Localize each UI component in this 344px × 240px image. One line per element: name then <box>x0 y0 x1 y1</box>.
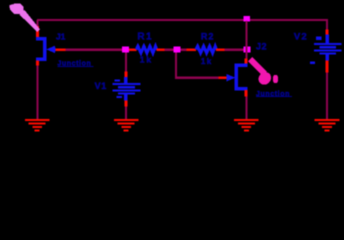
wire top rail right corner down to V2 <box>326 20 328 30</box>
battery V1 <box>112 77 140 100</box>
node C junction (drain rail) <box>243 47 250 53</box>
ground G3 <box>234 119 259 132</box>
battery V2 <box>310 35 342 64</box>
svg-text:V1: V1 <box>95 81 107 91</box>
wire node B to R2 <box>180 49 186 51</box>
pin R1 left <box>129 48 137 51</box>
pin V1 bottom stub <box>124 100 127 106</box>
svg-text:J1: J1 <box>56 32 66 42</box>
node B junction (J2 gate branch) <box>174 47 181 53</box>
pin R2 left <box>187 48 197 51</box>
pin R1 right <box>157 48 165 51</box>
pin J2 source stub <box>245 90 248 96</box>
pin J2 drain stub <box>245 58 248 64</box>
label J2 <box>256 41 267 51</box>
label R1 <box>137 32 153 43</box>
wire node B branch to J2 gate <box>175 77 219 79</box>
label Junction (J1 model) <box>57 61 93 68</box>
label R1 value 1k <box>140 55 153 65</box>
svg-text:J2: J2 <box>256 41 267 51</box>
label R2 value 1k <box>201 57 213 66</box>
cursor 1 (soldering-iron tool at J1 drain) <box>9 4 40 32</box>
label V2 <box>294 32 308 43</box>
node A junction (V1 branch) <box>122 47 129 53</box>
pin J2 gate stub <box>219 77 228 80</box>
ground G2 <box>114 119 139 132</box>
wire V2 to ground <box>326 73 328 119</box>
wire J2 source to ground <box>245 97 247 120</box>
label V1 <box>95 81 107 91</box>
label R2 <box>201 32 215 42</box>
cursor 2 (soldering-iron tool at J2 drain) <box>248 57 278 87</box>
svg-text:V2: V2 <box>294 32 308 43</box>
node D junction (top rail tap) <box>243 16 250 22</box>
label Junction (J2 model) <box>256 91 292 98</box>
wire node A down to V1 <box>125 52 127 71</box>
wire R2 to node C <box>224 49 244 51</box>
pin V2 top stub <box>325 30 328 35</box>
wire R1 to node B <box>165 49 175 51</box>
wire top rail to J2 drain <box>245 21 247 59</box>
wire top rail <box>37 19 328 21</box>
transistor J2 <box>227 64 248 91</box>
svg-text:R2: R2 <box>201 32 215 42</box>
wire J1 source to ground <box>37 65 39 119</box>
resistor R1 <box>136 46 157 53</box>
ground G1 <box>25 119 50 132</box>
svg-text:1k: 1k <box>140 55 153 65</box>
pin J1 gate stub <box>55 48 65 51</box>
pin V1 top stub <box>124 71 127 77</box>
wire J1 drain vertical <box>37 20 39 27</box>
wire V1 to ground <box>125 106 127 119</box>
resistor R2 <box>196 46 217 53</box>
label J1 <box>56 32 66 42</box>
wire J1 gate to node A <box>66 49 124 51</box>
svg-text:R1: R1 <box>137 32 153 43</box>
pin V2 bottom stub <box>325 61 328 73</box>
pin J1 drain stub <box>36 26 39 38</box>
pin J1 source stub <box>36 61 39 66</box>
wire node B down <box>175 52 177 77</box>
svg-text:1k: 1k <box>201 57 213 66</box>
ground G4 <box>315 119 340 132</box>
transistor J1 <box>36 37 56 61</box>
pin R2 right <box>216 48 224 51</box>
